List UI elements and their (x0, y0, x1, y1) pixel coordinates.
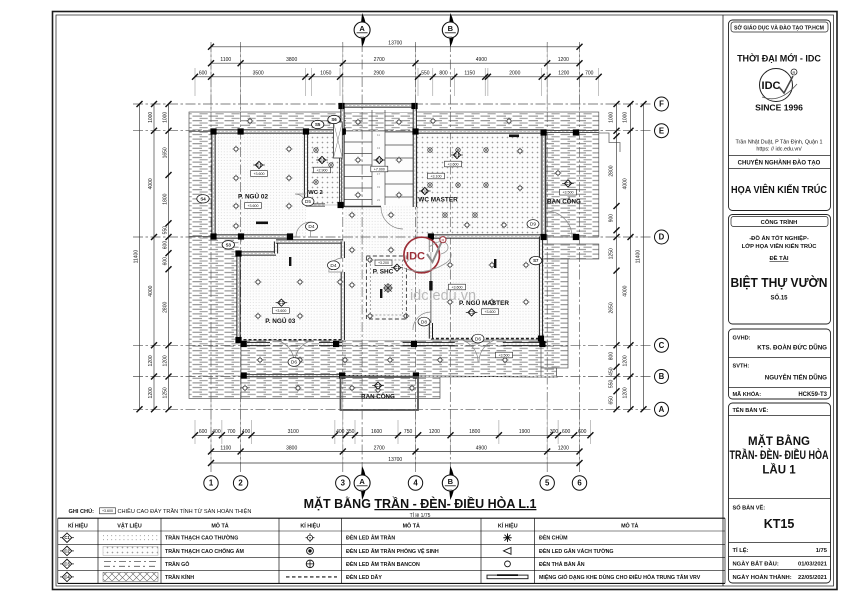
right dimension columns (616, 104, 618, 409)
svg-text:1100: 1100 (220, 57, 231, 63)
svg-text:4000: 4000 (148, 285, 154, 296)
svg-text:KTS. ĐOÀN ĐỨC DŨNG: KTS. ĐOÀN ĐỨC DŨNG (757, 345, 827, 352)
svg-text:900: 900 (608, 214, 614, 223)
svg-text:1800: 1800 (469, 429, 480, 435)
svg-text:S4: S4 (200, 196, 206, 201)
svg-text:R: R (441, 238, 444, 243)
svg-text:1200: 1200 (558, 57, 569, 63)
svg-text:1000: 1000 (622, 112, 628, 123)
IDC logo (760, 69, 798, 102)
wall piers (256, 135, 519, 299)
svg-text:1150: 1150 (464, 71, 475, 77)
svg-text:1200: 1200 (558, 71, 569, 77)
svg-text:C2: C2 (319, 157, 325, 162)
svg-text:600: 600 (162, 241, 168, 250)
svg-text:GVHD:: GVHD: (733, 336, 751, 342)
svg-text:WC MASTER: WC MASTER (418, 197, 458, 204)
svg-text:400: 400 (242, 429, 251, 435)
svg-text:IDC: IDC (406, 251, 425, 263)
svg-text:D6: D6 (475, 336, 481, 342)
svg-text:+3.600: +3.600 (447, 162, 458, 166)
svg-text:1200: 1200 (148, 355, 154, 366)
svg-text:SVTH:: SVTH: (733, 364, 750, 370)
svg-text:C1: C1 (64, 535, 70, 540)
svg-text:HCK59-T3: HCK59-T3 (798, 392, 827, 398)
svg-text:C1: C1 (454, 152, 460, 157)
svg-text:TRẦN GỖ: TRẦN GỖ (165, 561, 189, 568)
svg-text:TRẦN THẠCH CAO THƯỜNG: TRẦN THẠCH CAO THƯỜNG (165, 534, 238, 542)
svg-text:1200: 1200 (622, 355, 628, 366)
svg-text:ĐÈN LED DÂY: ĐÈN LED DÂY (346, 573, 382, 581)
svg-text:KÍ HIỆU: KÍ HIỆU (300, 522, 320, 530)
balcony bottom outline (341, 377, 419, 410)
svg-text:+3.600: +3.600 (484, 310, 495, 314)
svg-text:17: 17 (377, 172, 381, 176)
svg-text:F: F (659, 100, 664, 109)
svg-text:3100: 3100 (288, 429, 299, 435)
svg-text:4900: 4900 (476, 445, 487, 451)
svg-text:P. NGỦ 03: P. NGỦ 03 (265, 316, 296, 325)
svg-text:NGÀY HOÀN THÀNH:: NGÀY HOÀN THÀNH: (733, 574, 792, 581)
svg-text:D4: D4 (308, 224, 314, 230)
svg-text:11400: 11400 (133, 250, 139, 264)
svg-text:KÍ HIỆU: KÍ HIỆU (68, 522, 88, 530)
svg-text:MÃ KHÓA:: MÃ KHÓA: (733, 390, 762, 398)
svg-text:---: --- (360, 33, 365, 38)
title column separator (722, 15, 724, 586)
svg-text:ĐÈN LED GẮN VÁCH TƯỜNG: ĐÈN LED GẮN VÁCH TƯỜNG (539, 547, 614, 555)
svg-text:+7.000: +7.000 (374, 167, 385, 171)
svg-text:19: 19 (377, 185, 381, 189)
svg-text:1: 1 (209, 479, 214, 488)
svg-text:+3.100: +3.100 (430, 174, 441, 178)
svg-text:C: C (659, 341, 665, 350)
svg-text:R: R (793, 70, 796, 75)
svg-text:MIỆNG GIÓ DẠNG KHE DÙNG CHO ĐI: MIỆNG GIÓ DẠNG KHE DÙNG CHO ĐIỀU HÒA TRU… (539, 573, 701, 581)
svg-text:450: 450 (608, 367, 614, 376)
svg-text:2700: 2700 (374, 57, 385, 63)
svg-text:S7: S7 (533, 258, 539, 263)
svg-text:700: 700 (227, 429, 236, 435)
svg-text:BAN CÔNG: BAN CÔNG (361, 393, 395, 401)
svg-text:TÊN BẢN VẼ:: TÊN BẢN VẼ: (733, 406, 769, 414)
svg-text:13700: 13700 (388, 457, 402, 463)
svg-text:-ĐỒ ÁN TỐT NGHIỆP-: -ĐỒ ÁN TỐT NGHIỆP- (749, 234, 809, 242)
svg-text:5: 5 (545, 479, 550, 488)
svg-text:+3.600: +3.600 (102, 509, 113, 513)
svg-text:22/05/2021: 22/05/2021 (798, 575, 828, 581)
svg-text:1/75: 1/75 (816, 548, 828, 554)
svg-text:MÔ TẢ: MÔ TẢ (211, 522, 228, 530)
svg-text:S3: S3 (226, 242, 232, 247)
ceiling lights (233, 146, 240, 153)
svg-text:1100: 1100 (220, 445, 231, 451)
grid bubbles right (655, 402, 669, 416)
svg-text:---: --- (360, 486, 365, 491)
svg-text:CHIỀU CAO ĐÁY TRẦN TÍNH TỪ SÀN: CHIỀU CAO ĐÁY TRẦN TÍNH TỪ SÀN HOÀN THIỆ… (118, 507, 252, 515)
grid bubbles bottom (204, 476, 218, 490)
svg-text:TRẦN- ĐÈN- ĐIỀU HÒA: TRẦN- ĐÈN- ĐIỀU HÒA (730, 449, 829, 462)
svg-text:4000: 4000 (622, 285, 628, 296)
svg-text:IDC: IDC (762, 80, 781, 92)
svg-text:+3.600: +3.600 (253, 172, 264, 176)
legend table (58, 507, 725, 583)
svg-text:1200: 1200 (162, 355, 168, 366)
svg-text:idc.edu.vn: idc.edu.vn (410, 288, 476, 304)
grid lines (dash-dot) (210, 42, 212, 474)
svg-text:2900: 2900 (373, 71, 384, 77)
svg-text:3: 3 (341, 479, 346, 488)
svg-text:Trần Nhật Duật, P Tân Định, Qu: Trần Nhật Duật, P Tân Định, Quận 1 (735, 140, 822, 146)
door arcs (296, 222, 311, 237)
svg-text:MÔ TẢ: MÔ TẢ (621, 522, 638, 530)
svg-text:C3: C3 (565, 181, 571, 186)
svg-text:ĐÈN LED ÂM TRẦN: ĐÈN LED ÂM TRẦN (346, 534, 395, 542)
svg-text:TRẦN KÍNH: TRẦN KÍNH (165, 573, 194, 581)
svg-text:600: 600 (578, 429, 587, 435)
svg-text:A: A (659, 405, 665, 414)
svg-text:S5: S5 (315, 122, 321, 127)
title block (729, 20, 831, 583)
svg-text:800: 800 (439, 71, 448, 77)
svg-text:TRẦN THẠCH CAO CHỐNG ẨM: TRẦN THẠCH CAO CHỐNG ẨM (165, 548, 244, 555)
svg-text:21: 21 (377, 198, 381, 202)
svg-text:C1: C1 (394, 265, 400, 270)
svg-text:600: 600 (562, 429, 571, 435)
svg-text:D5: D5 (305, 199, 311, 205)
svg-text:LỚP HỌA VIÊN KIẾN TRÚC: LỚP HỌA VIÊN KIẾN TRÚC (742, 242, 818, 250)
svg-text:600: 600 (199, 71, 208, 77)
svg-text:+3.600: +3.600 (247, 204, 258, 208)
svg-text:4000: 4000 (622, 178, 628, 189)
svg-text:HỌA VIÊN KIẾN TRÚC: HỌA VIÊN KIẾN TRÚC (731, 183, 827, 196)
svg-text:600: 600 (199, 429, 208, 435)
chandelier SHC (383, 283, 393, 293)
svg-text:1000: 1000 (608, 112, 614, 123)
WC dotted areas (306, 132, 340, 206)
svg-text:13: 13 (377, 146, 381, 150)
stair treads (345, 110, 414, 207)
svg-text:SINCE 1996: SINCE 1996 (755, 103, 803, 113)
walls (239, 339, 343, 341)
top dimension rows (210, 44, 212, 111)
room ceiling fills (214, 132, 306, 237)
svg-text:ĐỀ TÀI: ĐỀ TÀI (769, 255, 788, 262)
section markers (354, 13, 370, 47)
svg-text:4900: 4900 (476, 57, 487, 63)
svg-text:ĐÈN LED ÂM TRẦN PHÒNG VỆ SINH: ĐÈN LED ÂM TRẦN PHÒNG VỆ SINH (346, 547, 439, 555)
svg-text:3500: 3500 (253, 71, 264, 77)
svg-text:C3: C3 (375, 383, 381, 388)
svg-text:ĐÈN LED ÂM TRẦN BANCON: ĐÈN LED ÂM TRẦN BANCON (346, 560, 420, 568)
columns (black) (210, 103, 579, 379)
svg-text:D4: D4 (330, 263, 336, 269)
top-right step detail (599, 133, 620, 152)
svg-text:550: 550 (608, 380, 614, 389)
svg-text:SỐ.15: SỐ.15 (770, 295, 788, 302)
svg-text:1250: 1250 (162, 387, 168, 398)
svg-text:CÔNG TRÌNH: CÔNG TRÌNH (761, 218, 798, 226)
svg-text:P. SHC: P. SHC (373, 269, 394, 276)
svg-text:600: 600 (162, 257, 168, 266)
svg-text:2800: 2800 (608, 165, 614, 176)
svg-text:TỈ LỆ:: TỈ LỆ: (733, 546, 749, 554)
svg-text:CHUYÊN NGHÀNH ĐÀO TẠO: CHUYÊN NGHÀNH ĐÀO TẠO (738, 159, 821, 167)
svg-text:350: 350 (346, 429, 355, 435)
svg-text:---: --- (448, 486, 453, 491)
svg-text:VẬT LIỆU: VẬT LIỆU (117, 522, 142, 530)
svg-text:750: 750 (404, 429, 413, 435)
svg-text:2700: 2700 (374, 445, 385, 451)
svg-text:NGUYỄN TIẾN DŨNG: NGUYỄN TIẾN DŨNG (765, 375, 827, 382)
svg-text:C2: C2 (64, 548, 70, 553)
svg-text:3800: 3800 (286, 57, 297, 63)
svg-text:1200: 1200 (558, 445, 569, 451)
svg-text:13700: 13700 (388, 41, 402, 47)
svg-text:2800: 2800 (162, 302, 168, 313)
svg-text:C4: C4 (64, 574, 70, 579)
svg-text:+3.600: +3.600 (275, 309, 286, 313)
left dimension columns (139, 104, 141, 409)
wc2 shaft (334, 122, 343, 158)
svg-text:1200: 1200 (148, 387, 154, 398)
svg-text:ĐÈN CHÙM: ĐÈN CHÙM (539, 534, 568, 542)
svg-text:1900: 1900 (519, 429, 530, 435)
svg-text:550: 550 (421, 71, 430, 77)
svg-text:KÍ HIỆU: KÍ HIỆU (498, 522, 518, 530)
svg-text:B: B (659, 372, 665, 381)
svg-text:1200: 1200 (429, 429, 440, 435)
svg-text:ĐÈN THẢ BÀN ĂN: ĐÈN THẢ BÀN ĂN (539, 560, 585, 568)
svg-text:MÔ TẢ: MÔ TẢ (403, 522, 420, 530)
svg-text:2650: 2650 (608, 302, 614, 313)
svg-text:THỜI ĐẠI MỚI - IDC: THỜI ĐẠI MỚI - IDC (737, 53, 821, 64)
svg-text:1600: 1600 (371, 429, 382, 435)
svg-text:MẶT BẰNG TRẦN - ĐÈN- ĐIỀU HÒA: MẶT BẰNG TRẦN - ĐÈN- ĐIỀU HÒA L.1 (304, 496, 537, 511)
svg-text:NGÀY BẮT ĐẦU:: NGÀY BẮT ĐẦU: (733, 560, 779, 568)
svg-text:11400: 11400 (635, 250, 641, 264)
svg-text:P. NGỦ 02: P. NGỦ 02 (238, 192, 269, 201)
svg-text:TỈ lệ 1/75: TỈ lệ 1/75 (410, 512, 431, 519)
svg-text:MẶT BẰNG: MẶT BẰNG (748, 435, 810, 448)
svg-text:1050: 1050 (320, 71, 331, 77)
SHC dashed void (366, 256, 406, 319)
svg-text:400: 400 (336, 429, 345, 435)
svg-text:650: 650 (608, 396, 614, 405)
svg-text:2: 2 (238, 479, 243, 488)
svg-text:S6: S6 (331, 117, 337, 122)
svg-text:550: 550 (162, 226, 168, 235)
svg-text:2000: 2000 (509, 71, 520, 77)
svg-text:+3.200: +3.200 (378, 261, 389, 265)
svg-text:C2: C2 (422, 188, 428, 193)
svg-text:400: 400 (212, 429, 221, 435)
svg-text:SỐ BẢN VẼ:: SỐ BẢN VẼ: (733, 505, 766, 512)
svg-text:C1: C1 (377, 157, 383, 162)
svg-text:D8: D8 (421, 319, 427, 325)
svg-text:1200: 1200 (622, 387, 628, 398)
svg-text:3800: 3800 (286, 445, 297, 451)
svg-text:01/03/2021: 01/03/2021 (798, 562, 828, 568)
svg-text:1250: 1250 (608, 248, 614, 259)
svg-text:4: 4 (413, 479, 418, 488)
svg-text:SỞ GIÁO DỤC VÀ ĐÀO TẠO TP.HCM: SỞ GIÁO DỤC VÀ ĐÀO TẠO TP.HCM (734, 25, 824, 32)
svg-text:6: 6 (577, 479, 582, 488)
room labels (253, 161, 265, 168)
svg-text:4000: 4000 (148, 178, 154, 189)
svg-text:BAN CÔNG: BAN CÔNG (547, 198, 581, 206)
svg-text:D: D (659, 233, 665, 242)
svg-text:D9: D9 (530, 222, 536, 228)
bottom dimension rows (210, 400, 212, 465)
svg-text:E: E (659, 126, 664, 135)
svg-text:LẦU 1: LẦU 1 (762, 464, 796, 477)
svg-text:C1: C1 (256, 162, 262, 167)
svg-text:---: --- (448, 33, 453, 38)
svg-text:300: 300 (550, 429, 559, 435)
svg-text:+3.500: +3.500 (562, 191, 573, 195)
svg-text:1800: 1800 (162, 193, 168, 204)
svg-text:700: 700 (585, 71, 594, 77)
svg-text:https: // idc.edu.vn/: https: // idc.edu.vn/ (756, 147, 802, 153)
svg-text:1650: 1650 (162, 147, 168, 158)
svg-text:11: 11 (377, 133, 380, 137)
svg-text:C3: C3 (64, 561, 70, 566)
svg-text:1000: 1000 (162, 112, 168, 123)
svg-text:GHI CHÚ:: GHI CHÚ: (69, 508, 95, 515)
svg-text:C1: C1 (279, 300, 285, 305)
svg-text:+2.900: +2.900 (316, 168, 327, 172)
svg-text:D6: D6 (291, 360, 297, 366)
svg-text:800: 800 (608, 352, 614, 361)
svg-text:1000: 1000 (148, 112, 154, 123)
plan hatched eave bands (189, 112, 599, 132)
svg-text:BIỆT THỰ VƯỜN: BIỆT THỰ VƯỜN (731, 275, 828, 290)
svg-text:WC 2: WC 2 (308, 190, 323, 196)
svg-text:C1: C1 (469, 310, 475, 315)
svg-text:KT15: KT15 (764, 517, 795, 531)
svg-text:+3.500: +3.500 (498, 353, 509, 357)
IDC stamp logo (404, 237, 451, 273)
